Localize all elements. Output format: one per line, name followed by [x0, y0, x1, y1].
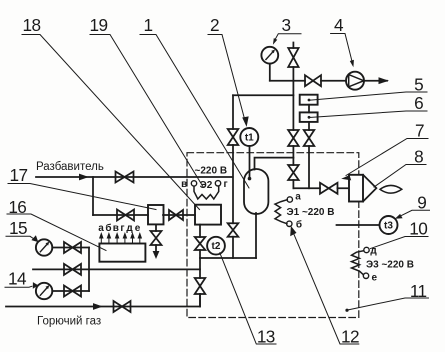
- dashed thermostat enclosure 11: [187, 153, 359, 318]
- thermometer t3 lead: [337, 224, 380, 226]
- thermometer t1: [240, 128, 258, 146]
- svg-text:г: г: [224, 179, 228, 190]
- svg-text:Разбавитель: Разбавитель: [36, 161, 104, 173]
- valve under box 19: [195, 237, 206, 250]
- leader and label 13: [220, 253, 276, 344]
- wire: vessel top outlet: [255, 158, 294, 170]
- svg-text:7: 7: [415, 121, 424, 141]
- svg-text:б: б: [296, 219, 302, 231]
- pressure gauge 3: [261, 47, 278, 64]
- valve on fuel riser: [195, 278, 206, 294]
- svg-text:а: а: [98, 223, 104, 234]
- sensor block 5: [300, 95, 318, 105]
- box 19 (evaporator): [195, 205, 221, 225]
- wire: left branch bottom y=291: [52, 290, 89, 292]
- wire: fuel gas line y=306.5: [6, 294, 200, 307]
- svg-text:18: 18: [23, 15, 41, 35]
- flow arrow fuel gas: [93, 303, 103, 310]
- sensor block 6: [300, 112, 318, 122]
- valve before box 17: [117, 210, 134, 221]
- pressure gauge 15: [36, 239, 52, 255]
- leader and label 14: [5, 282, 38, 289]
- power box 16: [99, 244, 145, 262]
- wire: between blocks and down x=309: [308, 105, 310, 189]
- pressure gauge 14: [36, 283, 52, 299]
- wire: saturator feed y=258: [200, 257, 256, 259]
- svg-text:д: д: [126, 223, 133, 234]
- box 17 (mixer): [148, 205, 164, 224]
- outlet flow arrow: [379, 77, 390, 84]
- svg-text:4: 4: [334, 15, 344, 35]
- leader and label 3: [273, 34, 301, 45]
- valve on bypass upper: [228, 129, 239, 145]
- valve on middle branch: [64, 264, 81, 275]
- valve on pump line: [305, 75, 321, 86]
- wire: diluent inlet line y=177: [36, 176, 233, 178]
- svg-text:t1: t1: [245, 133, 254, 144]
- svg-text:15: 15: [9, 218, 27, 238]
- svg-text:11: 11: [410, 281, 427, 301]
- svg-text:17: 17: [10, 165, 28, 185]
- leader and label 2: [208, 35, 249, 127]
- terminal в of Э2: [191, 181, 196, 186]
- terminal д of Э3: [364, 247, 369, 252]
- leader and label 9: [395, 210, 430, 219]
- valve on top branch: [64, 242, 81, 253]
- valve before burner: [320, 183, 338, 194]
- pump 4: [346, 72, 364, 90]
- terminal е of Э3: [363, 273, 368, 278]
- wire: drop from diluent line to mixer row: [92, 177, 94, 215]
- svg-text:9: 9: [417, 192, 426, 212]
- box 17 drain stub: [155, 224, 157, 231]
- wire: bypass vertical x=233: [232, 95, 234, 258]
- vessel 1 (saturator): [244, 169, 268, 214]
- svg-text:е: е: [372, 272, 378, 283]
- leader and label 15: [6, 235, 38, 242]
- leader and label 12: [290, 226, 359, 344]
- valve under block 6: [304, 130, 315, 146]
- wire: burner feed y=188.3: [293, 187, 349, 189]
- leader and label 11: [345, 298, 428, 312]
- svg-text:б: б: [105, 222, 111, 234]
- svg-text:Э2: Э2: [200, 180, 213, 191]
- svg-text:8: 8: [414, 146, 423, 166]
- vent valve 3: [288, 48, 298, 67]
- flow arrow diluent: [79, 174, 89, 181]
- leader and label 10: [371, 237, 429, 249]
- heater Э2 zigzag: [194, 186, 219, 199]
- svg-text:10: 10: [409, 219, 427, 239]
- flame: [380, 185, 402, 193]
- wire: mixer row y=215: [93, 214, 195, 216]
- wire: left branch top y=247.5: [52, 247, 89, 249]
- valve on bypass lower: [228, 223, 239, 236]
- wire: top link y=95.3: [233, 94, 293, 96]
- terminal а of Э1: [287, 197, 292, 202]
- wire: riser to vessel bottom: [255, 213, 257, 258]
- svg-text:14: 14: [8, 269, 27, 289]
- wire: pump line y=80.7: [270, 80, 387, 82]
- drain valve under box 17: [151, 231, 162, 245]
- drain outlet arrow: [155, 245, 157, 252]
- svg-text:а: а: [295, 192, 301, 203]
- valve on bottom branch: [64, 286, 81, 297]
- leader and label 7: [341, 139, 428, 181]
- power box output arrows: [99, 232, 142, 244]
- valve on stack lower: [288, 165, 299, 180]
- gauge 3 stem: [269, 64, 271, 81]
- svg-text:t2: t2: [212, 241, 221, 252]
- svg-text:13: 13: [257, 326, 275, 346]
- svg-text:Э1 ~220 В: Э1 ~220 В: [287, 207, 335, 218]
- svg-text:16: 16: [8, 197, 26, 217]
- heater Э1 zigzag: [275, 200, 287, 224]
- valve between box 17 and box 19: [169, 210, 183, 220]
- svg-text:12: 12: [341, 326, 359, 346]
- svg-text:г: г: [120, 223, 124, 234]
- thermometer t1 stem: [249, 146, 251, 179]
- terminal б of Э1: [287, 221, 292, 226]
- svg-text:t3: t3: [384, 221, 393, 232]
- leader and label 4: [331, 34, 354, 68]
- leader and label 19: [90, 35, 204, 188]
- valve on stack mid: [288, 130, 299, 146]
- wire: fuel/evaporator vertical x=200: [199, 225, 201, 307]
- svg-text:в: в: [113, 223, 119, 234]
- thermometer t3: [380, 216, 398, 234]
- leader and label 8: [374, 165, 426, 188]
- svg-text:е: е: [135, 223, 141, 234]
- svg-text:19: 19: [90, 15, 108, 35]
- svg-text:Горючий газ: Горючий газ: [37, 316, 101, 328]
- svg-text:3: 3: [282, 15, 291, 35]
- leader and label 17: [8, 184, 156, 210]
- leader and label 5: [310, 92, 428, 100]
- leader and label 16: [7, 214, 106, 251]
- leader and label 6: [310, 111, 428, 118]
- wire: manifold joining vertical x=89: [88, 248, 90, 292]
- svg-text:Э3 ~220 В: Э3 ~220 В: [366, 260, 414, 271]
- svg-text:1: 1: [144, 15, 153, 35]
- svg-text:в: в: [181, 179, 187, 190]
- leader and label 18: [22, 35, 200, 210]
- wire: left branch middle y=269.4: [33, 268, 200, 270]
- svg-text:~220 В: ~220 В: [195, 166, 228, 177]
- leader and label 1: [140, 35, 249, 189]
- wire: vent stack x=293.4: [292, 43, 294, 189]
- terminal г of Э2: [215, 181, 220, 186]
- thermometer t2: [207, 237, 225, 255]
- valve on fuel gas line: [114, 301, 131, 312]
- svg-text:5: 5: [414, 74, 423, 94]
- valve on diluent line: [116, 172, 134, 183]
- svg-text:2: 2: [210, 15, 219, 35]
- svg-text:6: 6: [414, 93, 423, 113]
- heater Э3 zigzag: [352, 251, 364, 275]
- burner 8 body: [349, 175, 376, 202]
